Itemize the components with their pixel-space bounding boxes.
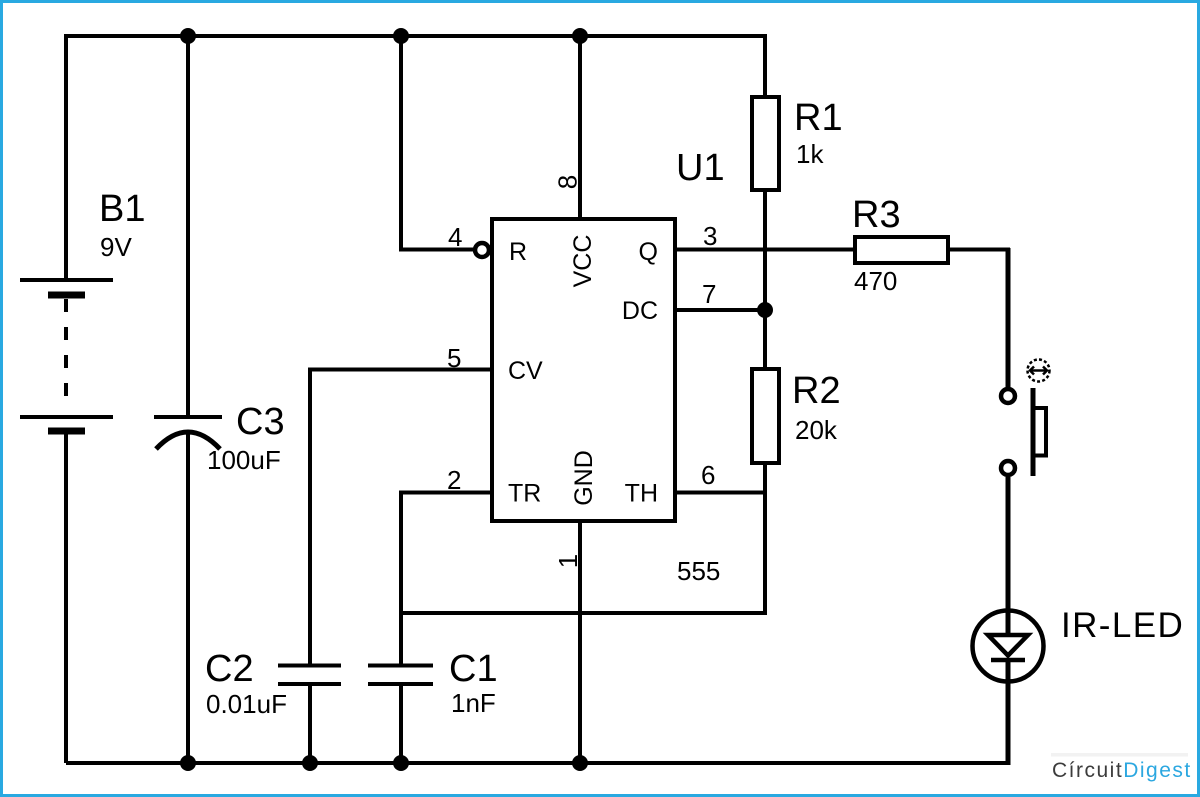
svg-text:20k: 20k — [795, 415, 838, 445]
svg-text:C1: C1 — [449, 648, 498, 690]
svg-text:3: 3 — [703, 221, 717, 251]
svg-text:TR: TR — [508, 480, 541, 508]
switch S1 pushbutton — [1001, 360, 1050, 477]
svg-text:IR-LED: IR-LED — [1061, 606, 1184, 645]
wire C3 top lead — [186, 36, 190, 417]
svg-text:C2: C2 — [205, 648, 254, 690]
wire R2 bottom lead — [401, 463, 765, 613]
svg-text:1k: 1k — [796, 139, 824, 169]
wire C1 bottom lead — [399, 684, 403, 763]
wire switch to LED — [1006, 477, 1011, 635]
svg-text:TH: TH — [625, 480, 658, 508]
wire C3 bottom lead — [186, 433, 190, 763]
node junction bottom rail at C2 — [302, 755, 318, 771]
wire C2 bottom lead — [308, 684, 312, 763]
capacitor C3 — [154, 417, 222, 449]
wire DC pin 7 lead — [675, 308, 765, 312]
logo CircuitDigest — [1051, 753, 1192, 782]
wire reset branch to pin 4 — [401, 36, 474, 250]
wire TR pin 2 lead — [401, 493, 492, 666]
svg-text:VCC: VCC — [569, 235, 597, 288]
svg-text:470: 470 — [854, 266, 897, 296]
svg-text:DC: DC — [622, 297, 658, 325]
svg-text:7: 7 — [702, 279, 716, 309]
svg-text:R1: R1 — [794, 97, 843, 139]
capacitor C2 — [278, 666, 341, 685]
svg-text:1nF: 1nF — [451, 688, 496, 718]
svg-text:9V: 9V — [100, 232, 132, 262]
wire LED to bottom rail — [1006, 658, 1011, 764]
node junction DC — [757, 302, 773, 318]
pin bubble reset — [475, 243, 489, 257]
wire R1 bottom to DC node — [763, 190, 767, 369]
wire Q pin 3 lead — [675, 248, 855, 252]
svg-text:U1: U1 — [676, 147, 725, 189]
node junction top rail at reset branch — [393, 28, 409, 44]
wire VCC pin 8 lead — [578, 36, 582, 219]
svg-text:4: 4 — [448, 222, 462, 252]
op-amp U1 555 timer body — [492, 219, 675, 521]
svg-text:0.01uF: 0.01uF — [206, 689, 287, 719]
wire TH pin 6 lead — [675, 491, 765, 495]
battery B1 — [20, 280, 113, 431]
capacitor C1 — [368, 666, 433, 685]
node junction bottom rail at GND — [572, 755, 588, 771]
resistor R2 — [752, 369, 779, 463]
svg-text:C3: C3 — [236, 401, 285, 443]
svg-text:B1: B1 — [99, 188, 145, 230]
node junction bottom rail at C1 — [393, 755, 409, 771]
resistor R3 — [855, 237, 948, 263]
svg-text:555: 555 — [677, 556, 720, 586]
node junction top rail at VCC — [572, 28, 588, 44]
svg-text:CírcuitDigest: CírcuitDigest — [1052, 759, 1192, 782]
svg-text:R: R — [509, 238, 527, 266]
svg-text:Q: Q — [639, 238, 658, 266]
resistor R1 — [752, 97, 779, 190]
wire CV pin 5 lead to C2 — [310, 370, 492, 666]
svg-text:100uF: 100uF — [207, 445, 281, 475]
svg-text:8: 8 — [553, 175, 583, 189]
svg-text:CV: CV — [508, 357, 543, 385]
wire battery negative lead — [64, 431, 68, 763]
node junction bottom rail at C3 — [180, 755, 196, 771]
wire top rail VCC net — [66, 36, 765, 282]
svg-text:6: 6 — [701, 460, 715, 490]
svg-text:R3: R3 — [852, 194, 901, 236]
wire R3 to switch — [948, 248, 1010, 252]
svg-text:GND: GND — [570, 450, 598, 506]
svg-text:R2: R2 — [792, 370, 841, 412]
wire GND pin 1 lead — [578, 521, 582, 763]
LED D1 IR-LED — [973, 611, 1044, 682]
node junction top rail at C3 — [180, 28, 196, 44]
wire bottom rail ground net — [66, 761, 1011, 765]
